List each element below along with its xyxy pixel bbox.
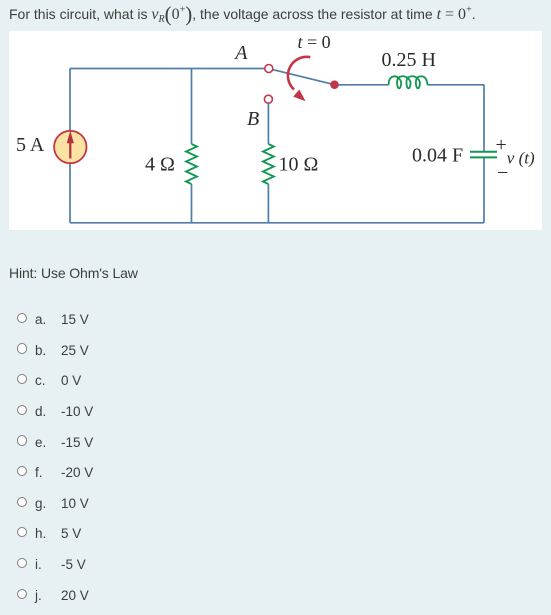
- svg-text:5 A: 5 A: [16, 134, 45, 156]
- svg-text:0.25 H: 0.25 H: [382, 49, 436, 71]
- svg-text:10 Ω: 10 Ω: [279, 154, 319, 176]
- switch terminal B: [264, 95, 272, 103]
- resistor 10ohm: [263, 144, 274, 184]
- labels: [16, 32, 535, 184]
- svg-text:0.04 F: 0.04 F: [412, 145, 463, 167]
- svg-text:4 Ω: 4 Ω: [145, 154, 175, 176]
- wire left vertical: [69, 69, 71, 223]
- svg-text:v (t): v (t): [507, 148, 535, 167]
- svg-text:B: B: [247, 108, 259, 130]
- current source I1: [54, 131, 86, 163]
- wire bottom: [70, 222, 484, 224]
- resistor 4ohm: [186, 144, 197, 184]
- svg-text:+: +: [496, 134, 507, 156]
- wire B branch: [267, 103, 269, 222]
- wire top left: [70, 68, 265, 70]
- inductor L1: [389, 76, 428, 88]
- wire inductor to right corner: [427, 85, 484, 151]
- wire dot to inductor: [335, 84, 389, 86]
- switch terminal A: [265, 65, 273, 73]
- capacitor C1 plates: [470, 152, 497, 158]
- switch arrow: [288, 57, 310, 90]
- wire 4ohm branch: [191, 69, 193, 223]
- svg-text:−: −: [497, 162, 508, 184]
- svg-text:A: A: [233, 42, 248, 64]
- wire switch arm: [273, 70, 335, 85]
- svg-text:t = 0: t = 0: [298, 32, 331, 52]
- switch pivot dot: [330, 80, 339, 89]
- wire below capacitor: [483, 158, 485, 223]
